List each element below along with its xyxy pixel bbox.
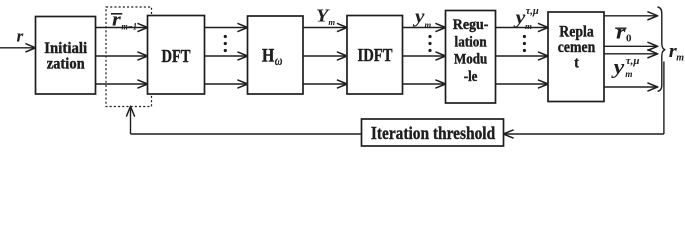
vertical dots after Regulation [523,35,526,52]
svg-text:m: m [525,21,532,31]
wire Regulation to Replacement top [496,27,548,29]
wire IDFT to Regulation middle [403,55,446,57]
wire input r [0,47,35,49]
wire Replacement out bottom [604,86,657,88]
svg-text:m: m [625,70,632,80]
node label y_m_tau_mu (into Replacement) [513,6,539,31]
svg-text:t: t [574,55,579,72]
svg-text:m: m [328,17,335,27]
svg-text:y: y [610,55,625,79]
svg-text:τ,μ: τ,μ [626,55,640,67]
wire Init to DFT middle [96,55,148,57]
svg-text:H: H [262,45,274,66]
wire DFT to Hw middle [205,55,248,57]
wire Init to DFT bottom [96,83,148,85]
svg-text:r: r [112,10,122,31]
svg-text:ω: ω [275,54,283,69]
svg-text:IDFT: IDFT [358,45,393,65]
brace grouping outputs [658,7,666,91]
svg-text:cemen: cemen [558,39,596,56]
box Replacement [548,12,604,102]
wire Replacement out middle upper [604,45,657,47]
svg-text:r: r [17,27,24,46]
svg-text:zation: zation [47,56,85,73]
svg-text:DFT: DFT [162,46,191,66]
node label r_bar_0 [615,23,632,45]
box Hw [248,16,304,94]
svg-text:Modu: Modu [454,52,487,68]
vertical dots after IDFT [428,35,431,52]
svg-text:-le: -le [464,69,478,85]
svg-text:Iteration threshold: Iteration threshold [371,123,495,143]
wire IDFT to Regulation top [403,27,446,29]
svg-text:m−1: m−1 [121,22,137,32]
svg-text:Regu-: Regu- [453,17,489,33]
svg-text:m: m [425,20,432,30]
node label y_m [413,7,432,30]
wire Regulation to Replacement middle [496,55,548,57]
svg-text:τ,μ: τ,μ [526,6,539,17]
svg-text:r: r [616,23,626,44]
wire Regulation to Replacement bottom [496,83,548,85]
wire Replacement out top [604,15,657,17]
wire Init to DFT top [96,27,148,29]
svg-text:y: y [413,7,425,28]
node label r_m (output) [669,41,685,64]
dashed feedback box [106,7,152,107]
svg-text:lation: lation [455,34,488,50]
node label r_bar_m-1 [111,10,137,33]
wire DFT to Hw bottom [205,83,248,85]
wire feedback horizontal right to Iteration threshold [504,133,664,135]
box Regulation Module [446,11,496,104]
wire feedback horizontal left [131,133,362,135]
wire Hw to IDFT bottom [303,83,347,85]
wire feedback vertical right [663,62,665,135]
svg-text:Initiali: Initiali [44,40,88,57]
wire Hw to IDFT middle [303,55,347,57]
wire Replacement out middle lower [604,53,657,55]
wire DFT to Hw top [205,27,248,29]
svg-text:m: m [676,53,684,64]
box Iteration threshold [362,119,504,146]
box Initialization [36,17,96,95]
node label Y_m [316,6,335,28]
box DFT [148,16,205,95]
wire feedback vertical left into dashed box [130,107,132,134]
wire Hw to IDFT top [303,27,347,29]
vertical dots after DFT [224,35,227,52]
node label y_m_tau_mu (output) [610,55,639,80]
svg-text:0: 0 [626,32,632,44]
svg-text:Repla: Repla [559,23,593,40]
wire IDFT to Regulation bottom [403,83,446,85]
box IDFT [347,16,403,95]
